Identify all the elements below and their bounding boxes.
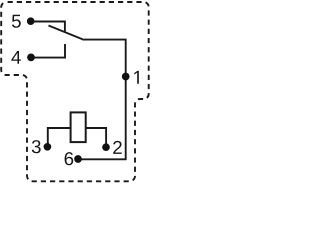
label pin 1 [134, 71, 139, 84]
coil right wire to pin2 [85, 128, 106, 146]
pin 1 terminal dot [122, 73, 130, 81]
coil left wire to pin3 [48, 128, 71, 146]
label pin 5 [12, 15, 21, 28]
pin 3 terminal dot [44, 143, 52, 151]
wire pin5 to NC contact stub [31, 22, 65, 32]
pin 5 terminal dot [27, 17, 35, 25]
pin 4 terminal dot [27, 54, 35, 62]
label pin 3 [32, 140, 41, 153]
label pin 6 [65, 152, 74, 165]
pin 2 terminal dot [102, 143, 110, 151]
wire pin4 to NO contact stub [31, 44, 65, 58]
wire common: blade to right rail, down past pin1, bottom to pin6 [78, 40, 126, 160]
switch blade (movable contact) [49, 26, 83, 40]
relay case outline (dashed) [1, 2, 149, 181]
pin 6 terminal dot [74, 155, 82, 163]
label pin 2 [113, 141, 122, 154]
coil K1 [71, 112, 86, 142]
label pin 4 [11, 51, 20, 64]
